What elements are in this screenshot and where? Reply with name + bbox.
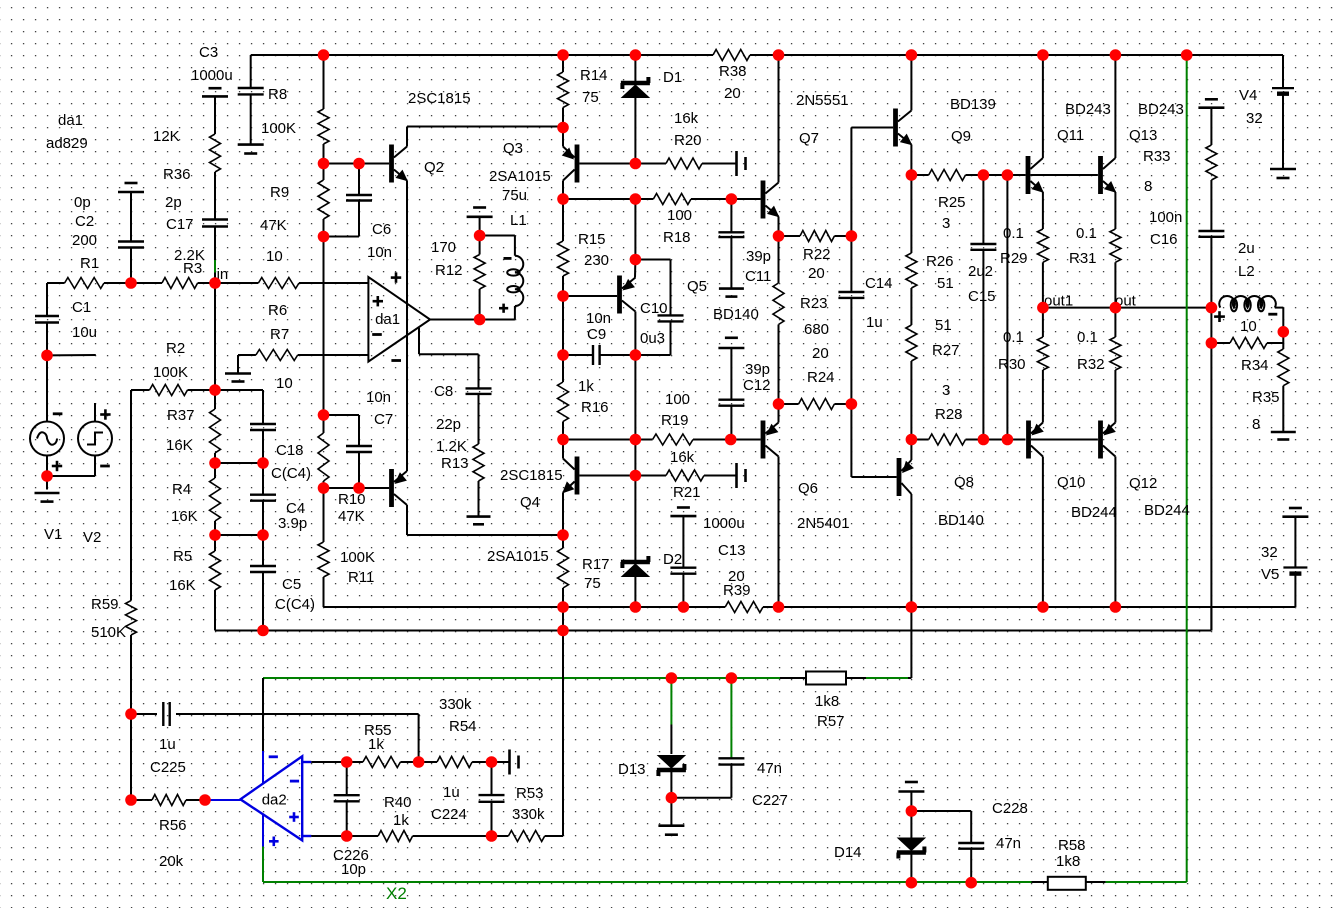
battery V4 32 xyxy=(1282,55,1284,88)
junction xyxy=(557,349,569,361)
capacitor C2 0p xyxy=(118,240,144,242)
wire da2 bottom pin xyxy=(302,835,311,837)
svg-text:V1: V1 xyxy=(44,526,62,543)
svg-text:BD244: BD244 xyxy=(1071,504,1117,521)
ground V4 xyxy=(1270,168,1296,171)
svg-text:39p: 39p xyxy=(745,361,770,378)
junction xyxy=(906,434,918,446)
wire R16 column xyxy=(562,296,564,382)
transistor Q5 BD140 xyxy=(617,276,622,314)
svg-text:Q13: Q13 xyxy=(1129,127,1157,144)
junction xyxy=(209,384,221,396)
wire column x323 lower xyxy=(323,283,325,433)
resistor R39 20 in rail xyxy=(725,602,763,613)
junction xyxy=(1206,302,1218,314)
svg-text:1k: 1k xyxy=(368,736,384,753)
junction xyxy=(209,277,221,289)
svg-text:2SA1015: 2SA1015 xyxy=(489,168,551,185)
wire Q7 collector to rail xyxy=(778,55,780,183)
resistor R59 510K xyxy=(126,601,137,635)
wire da1 output xyxy=(430,319,515,321)
junction xyxy=(1110,601,1122,613)
resistor R11 100K xyxy=(318,542,329,577)
ground R7 xyxy=(237,355,239,374)
svg-text:R35: R35 xyxy=(1252,389,1280,406)
resistor R58 1k8 box xyxy=(1032,881,1048,883)
wire Q8 emitter up to R28 row xyxy=(910,440,912,461)
junction xyxy=(1181,49,1193,61)
svg-text:10: 10 xyxy=(276,375,293,392)
junction xyxy=(557,49,569,61)
wire bias row lower xyxy=(911,439,928,441)
junction xyxy=(1037,49,1049,61)
resistor R1 200 xyxy=(65,278,104,289)
wire top positive rail xyxy=(251,54,713,56)
wire Q11 collector to rail xyxy=(1042,55,1044,158)
svg-text:C225: C225 xyxy=(150,759,186,776)
wire out column down to rail2 xyxy=(1210,308,1212,631)
voltage source V1 sine xyxy=(30,422,64,456)
capacitor C7 10n xyxy=(324,414,360,416)
svg-text:10p: 10p xyxy=(341,861,366,878)
resistor R5 16K xyxy=(210,551,221,590)
svg-text:Q9: Q9 xyxy=(951,128,971,145)
svg-text:1k: 1k xyxy=(393,812,409,829)
wire lag network row1 xyxy=(215,462,263,464)
wire D14 to C228 xyxy=(911,810,971,812)
transistor Q4 2SA1015 xyxy=(575,457,580,495)
svg-text:2N5401: 2N5401 xyxy=(797,515,850,532)
capacitor C9 10n xyxy=(563,354,593,356)
wire bottom rail 2 (V-ee row2) xyxy=(215,630,1211,632)
wire R11 to rail1 xyxy=(323,577,325,607)
resistor R29 0.1 xyxy=(1037,229,1048,262)
junction xyxy=(630,601,642,613)
svg-text:1k8: 1k8 xyxy=(1056,853,1080,870)
svg-text:0.1: 0.1 xyxy=(1003,225,1024,242)
wire Q1 base row xyxy=(324,487,390,489)
wire Q4 collector up xyxy=(562,440,564,459)
wire R5 to bottom rail 2 xyxy=(214,590,216,631)
junction xyxy=(474,230,486,242)
junction xyxy=(1110,302,1122,314)
svg-text:R56: R56 xyxy=(159,817,187,834)
inductor L1 75u xyxy=(515,256,523,306)
junction xyxy=(630,193,642,205)
resistor R32 0.1 xyxy=(1114,308,1116,337)
svg-text:R59: R59 xyxy=(91,596,119,613)
resistor R10 47K xyxy=(318,433,329,481)
resistor R4 16K xyxy=(210,478,221,521)
transistor Q6 2N5401 xyxy=(761,421,766,459)
wire Q6 emitter to R24 node xyxy=(778,404,780,423)
junction xyxy=(41,350,53,362)
wire out row xyxy=(1043,307,1212,309)
capacitor C15 2u2 xyxy=(982,175,984,244)
svg-text:BD243: BD243 xyxy=(1065,101,1111,118)
svg-text:C13: C13 xyxy=(718,542,746,559)
capacitor C13 1000u xyxy=(682,516,684,568)
svg-text:32: 32 xyxy=(1246,110,1263,127)
wire C2 leads xyxy=(130,192,132,242)
svg-text:680: 680 xyxy=(804,321,829,338)
inductor L2 2u xyxy=(1219,296,1275,308)
junction xyxy=(846,230,858,242)
junction xyxy=(257,625,269,637)
wire net X2 vertical xyxy=(1186,55,1188,882)
capacitor C14 1u xyxy=(850,236,852,292)
resistor R2 100K xyxy=(150,385,188,396)
svg-text:2SA1015: 2SA1015 xyxy=(487,548,549,565)
opamp da2 xyxy=(240,756,302,840)
svg-text:C1: C1 xyxy=(72,299,91,316)
svg-text:C12: C12 xyxy=(743,377,771,394)
resistor R19 100 xyxy=(653,434,693,445)
wire Q2 base row xyxy=(324,163,390,165)
junction xyxy=(125,277,137,289)
resistor R26 51 xyxy=(906,253,917,288)
wire R32 to Q12 xyxy=(1114,370,1116,423)
wire lag network row2 xyxy=(215,534,263,536)
svg-text:C6: C6 xyxy=(372,221,391,238)
wire Q11 base row to Q13 xyxy=(1030,174,1098,176)
junction xyxy=(257,457,269,469)
transistor Q12 BD244 xyxy=(1098,421,1103,459)
transistor Q7 2N5551 xyxy=(761,181,766,219)
wire open stub at V1 node xyxy=(47,354,96,356)
svg-text:R32: R32 xyxy=(1077,356,1105,373)
capacitor C228 47n xyxy=(958,842,984,844)
junction xyxy=(486,756,498,768)
svg-text:75: 75 xyxy=(582,89,599,106)
battery V5 32 with terminal xyxy=(1289,507,1302,510)
svg-text:R29: R29 xyxy=(1000,250,1028,267)
svg-text:330k: 330k xyxy=(512,806,545,823)
svg-text:C18: C18 xyxy=(276,442,304,459)
wire rail1-rail2 link x563 xyxy=(562,607,564,631)
junction xyxy=(353,158,365,170)
svg-text:D13: D13 xyxy=(618,761,646,778)
wire Q9 base column xyxy=(850,128,852,237)
wire Q9 emitter to R25 xyxy=(910,145,912,176)
svg-text:R58: R58 xyxy=(1058,837,1086,854)
junction xyxy=(557,193,569,205)
diode D2 zener xyxy=(634,476,636,561)
junction xyxy=(906,805,918,817)
wire Q3 collector down xyxy=(562,181,564,200)
junction xyxy=(906,49,918,61)
junction xyxy=(666,672,678,684)
wire divider column x323 upper xyxy=(323,55,325,109)
svg-text:C15: C15 xyxy=(968,288,996,305)
junction xyxy=(557,290,569,302)
junction xyxy=(773,601,785,613)
junction xyxy=(630,470,642,482)
svg-text:V4: V4 xyxy=(1239,87,1257,104)
svg-text:R4: R4 xyxy=(172,481,191,498)
svg-text:R16: R16 xyxy=(581,399,609,416)
svg-text:75: 75 xyxy=(584,575,601,592)
junction xyxy=(199,794,211,806)
svg-text:C5: C5 xyxy=(282,576,301,593)
opamp da1 ad829 xyxy=(368,277,430,362)
wire R29 to out1 xyxy=(1042,262,1044,307)
resistor R3 2.2K xyxy=(162,278,198,289)
wire R57 to rail1 xyxy=(908,677,911,679)
svg-text:0.1: 0.1 xyxy=(1003,329,1024,346)
svg-text:20: 20 xyxy=(812,345,829,362)
svg-text:C227: C227 xyxy=(752,792,788,809)
ground D13 xyxy=(670,798,672,826)
junction xyxy=(630,158,642,170)
svg-text:22p: 22p xyxy=(436,416,461,433)
wire bottom rail 1 xyxy=(324,606,726,608)
wire Q6 base lead xyxy=(731,439,761,441)
junction xyxy=(773,230,785,242)
wire R6 leads / to da1 plus input xyxy=(215,282,258,284)
wire C17 to node in xyxy=(214,227,216,284)
svg-text:C16: C16 xyxy=(1150,231,1178,248)
svg-text:8: 8 xyxy=(1144,178,1152,195)
diode D1 zener xyxy=(634,55,636,81)
capacitor C227 47n xyxy=(730,678,732,758)
junction xyxy=(557,529,569,541)
resistor R54 330k xyxy=(437,757,472,768)
junction xyxy=(1002,169,1014,181)
svg-text:1k: 1k xyxy=(578,378,594,395)
capacitor C10 0u3 xyxy=(658,314,684,316)
junction xyxy=(413,756,425,768)
svg-text:R34: R34 xyxy=(1241,357,1269,374)
svg-text:R14: R14 xyxy=(580,67,608,84)
svg-text:100K: 100K xyxy=(340,549,375,566)
junction xyxy=(318,158,330,170)
resistor R31 0.1 xyxy=(1110,229,1121,262)
wire to L1 xyxy=(480,235,515,237)
net label in marker xyxy=(214,260,216,273)
resistor R23 680 xyxy=(778,236,780,283)
resistor R21 16k xyxy=(635,475,666,477)
svg-text:230: 230 xyxy=(584,252,609,269)
resistor R33 8 xyxy=(1206,145,1217,180)
svg-text:R33: R33 xyxy=(1143,148,1171,165)
svg-text:10: 10 xyxy=(266,248,283,265)
svg-text:0.1: 0.1 xyxy=(1077,329,1098,346)
wire input row xyxy=(47,282,65,284)
svg-text:D14: D14 xyxy=(834,844,862,861)
resistor R18 100 xyxy=(653,194,691,205)
junction xyxy=(341,756,353,768)
svg-text:C10: C10 xyxy=(640,300,668,317)
wire da2 minus output side xyxy=(262,815,264,847)
svg-text:R36: R36 xyxy=(163,166,191,183)
wire R3 leads xyxy=(131,282,162,284)
wire bias row upper xyxy=(911,174,928,176)
svg-text:R12: R12 xyxy=(435,262,463,279)
capacitor C3 1000u xyxy=(238,87,264,89)
junction xyxy=(965,877,977,889)
transistor Q11 BD243 xyxy=(1026,156,1031,194)
junction xyxy=(1278,326,1290,338)
wire x635 to R19 row xyxy=(634,355,636,476)
junction xyxy=(209,529,221,541)
svg-text:V2: V2 xyxy=(83,529,101,546)
svg-text:BD140: BD140 xyxy=(938,512,984,529)
resistor R37 16K xyxy=(210,409,221,453)
svg-text:2N5551: 2N5551 xyxy=(796,92,849,109)
svg-text:C(C4): C(C4) xyxy=(271,465,311,482)
svg-text:20: 20 xyxy=(808,265,825,282)
svg-text:1u: 1u xyxy=(443,784,460,801)
wire Q11 emitter to R29 xyxy=(1042,192,1044,229)
svg-text:10n: 10n xyxy=(366,389,391,406)
resistor R17 75 xyxy=(562,535,564,548)
svg-text:39p: 39p xyxy=(746,248,771,265)
junction xyxy=(257,529,269,541)
resistor R30 0.1 xyxy=(1042,308,1044,337)
wire R26/R27 column xyxy=(910,175,912,253)
svg-text:2p: 2p xyxy=(165,194,182,211)
svg-text:47K: 47K xyxy=(338,508,365,525)
transistor Q2 2SC1815 xyxy=(389,145,394,183)
resistor R35 8 xyxy=(1282,343,1284,349)
resistor R38 20 in rail xyxy=(713,50,750,61)
svg-text:C2: C2 xyxy=(75,213,94,230)
svg-text:R24: R24 xyxy=(807,369,835,386)
svg-text:R5: R5 xyxy=(173,548,192,565)
wire x635 from R18 row to C10 node xyxy=(634,199,636,260)
svg-text:1u: 1u xyxy=(159,736,176,753)
junction xyxy=(1037,601,1049,613)
junction xyxy=(557,434,569,446)
svg-text:C14: C14 xyxy=(865,275,893,292)
wire R2 to divider node xyxy=(188,389,216,391)
svg-text:8: 8 xyxy=(1252,416,1260,433)
svg-text:da1: da1 xyxy=(58,112,83,129)
resistor R8 100K xyxy=(318,109,329,144)
wire R53 up to rail2 xyxy=(562,631,564,837)
svg-text:100K: 100K xyxy=(261,120,296,137)
junction xyxy=(1002,434,1014,446)
svg-text:C3: C3 xyxy=(199,44,218,61)
wire Q12 collector to rail1 xyxy=(1114,457,1116,608)
resistor R16 1k xyxy=(558,382,569,422)
svg-text:100K: 100K xyxy=(153,364,188,381)
capacitor C17 2p xyxy=(202,218,228,220)
svg-text:R6: R6 xyxy=(268,302,287,319)
svg-text:0u3: 0u3 xyxy=(640,330,665,347)
junction xyxy=(1206,337,1218,349)
svg-text:510K: 510K xyxy=(91,624,126,641)
wire C10 top xyxy=(635,259,670,261)
junction xyxy=(341,830,353,842)
junction xyxy=(630,349,642,361)
svg-text:C228: C228 xyxy=(992,800,1028,817)
svg-text:Q3: Q3 xyxy=(503,140,523,157)
svg-text:R57: R57 xyxy=(817,713,845,730)
svg-text:L2: L2 xyxy=(1238,263,1255,280)
junction xyxy=(726,672,738,684)
ground C11 xyxy=(719,287,744,290)
junction xyxy=(678,601,690,613)
capacitor C6 10n xyxy=(358,164,360,196)
resistor R14 75 xyxy=(558,72,569,108)
transistor Q9 BD139 xyxy=(893,109,898,147)
capacitor C18 C(C4) xyxy=(250,423,276,425)
wire Q13 emitter to R31 xyxy=(1114,192,1116,229)
resistor R55 1k xyxy=(347,761,363,763)
resistor R15 230 xyxy=(562,199,564,241)
wire C1 branch xyxy=(46,283,48,316)
svg-text:Q11: Q11 xyxy=(1057,127,1084,144)
wire V1 top lead xyxy=(46,355,48,422)
resistor R25 3 xyxy=(929,170,966,181)
resistor R28 3 xyxy=(929,434,966,445)
svg-text:47K: 47K xyxy=(260,217,287,234)
svg-text:R1: R1 xyxy=(80,255,99,272)
junction xyxy=(486,830,498,842)
junction xyxy=(41,470,53,482)
svg-text:C11: C11 xyxy=(745,268,771,285)
terminal C13 top xyxy=(677,506,690,509)
svg-text:330k: 330k xyxy=(439,696,472,713)
wire D13 to C227 bottom xyxy=(671,797,731,799)
svg-text:0.1: 0.1 xyxy=(1076,225,1097,242)
svg-text:0p: 0p xyxy=(74,194,91,211)
svg-text:10n: 10n xyxy=(367,244,392,261)
resistor R9 47K xyxy=(318,180,329,219)
junction xyxy=(726,193,738,205)
svg-text:51: 51 xyxy=(935,317,952,334)
svg-text:da2: da2 xyxy=(262,792,287,809)
svg-text:10: 10 xyxy=(1240,318,1257,335)
junction xyxy=(209,457,221,469)
wire R19 row xyxy=(563,439,653,441)
junction xyxy=(557,625,569,637)
svg-text:ad829: ad829 xyxy=(46,135,88,152)
wire R56 to da2 output xyxy=(205,799,240,801)
wire C18 branch xyxy=(215,389,263,391)
wire V2 top lead xyxy=(94,403,96,422)
terminal C2 top xyxy=(125,182,138,185)
svg-text:170: 170 xyxy=(431,239,456,256)
junction xyxy=(1037,302,1049,314)
wire Q2 collector to Q3 emitter xyxy=(406,127,408,147)
svg-text:2u2: 2u2 xyxy=(968,263,993,280)
transistor Q8 BD140 xyxy=(897,458,902,496)
svg-text:R26: R26 xyxy=(926,253,954,270)
resistor R56 20k xyxy=(131,799,152,801)
svg-text:2SC1815: 2SC1815 xyxy=(408,90,471,107)
svg-text:Q5: Q5 xyxy=(687,278,707,295)
svg-text:R18: R18 xyxy=(663,229,691,246)
wire da1 feedback tap xyxy=(418,328,420,354)
junction xyxy=(773,398,785,410)
wire Q6 collector to rail1 xyxy=(778,457,780,608)
junction xyxy=(474,314,486,326)
junction xyxy=(906,601,918,613)
junction xyxy=(666,792,678,804)
svg-text:BD243: BD243 xyxy=(1138,101,1184,118)
svg-text:51: 51 xyxy=(937,275,954,292)
junction xyxy=(906,169,918,181)
svg-text:R3: R3 xyxy=(183,260,202,277)
ground R13 xyxy=(467,515,491,518)
transistor Q10 BD244 xyxy=(1026,421,1031,459)
junction xyxy=(318,49,330,61)
svg-text:1000u: 1000u xyxy=(703,515,745,532)
svg-text:R38: R38 xyxy=(719,63,747,80)
